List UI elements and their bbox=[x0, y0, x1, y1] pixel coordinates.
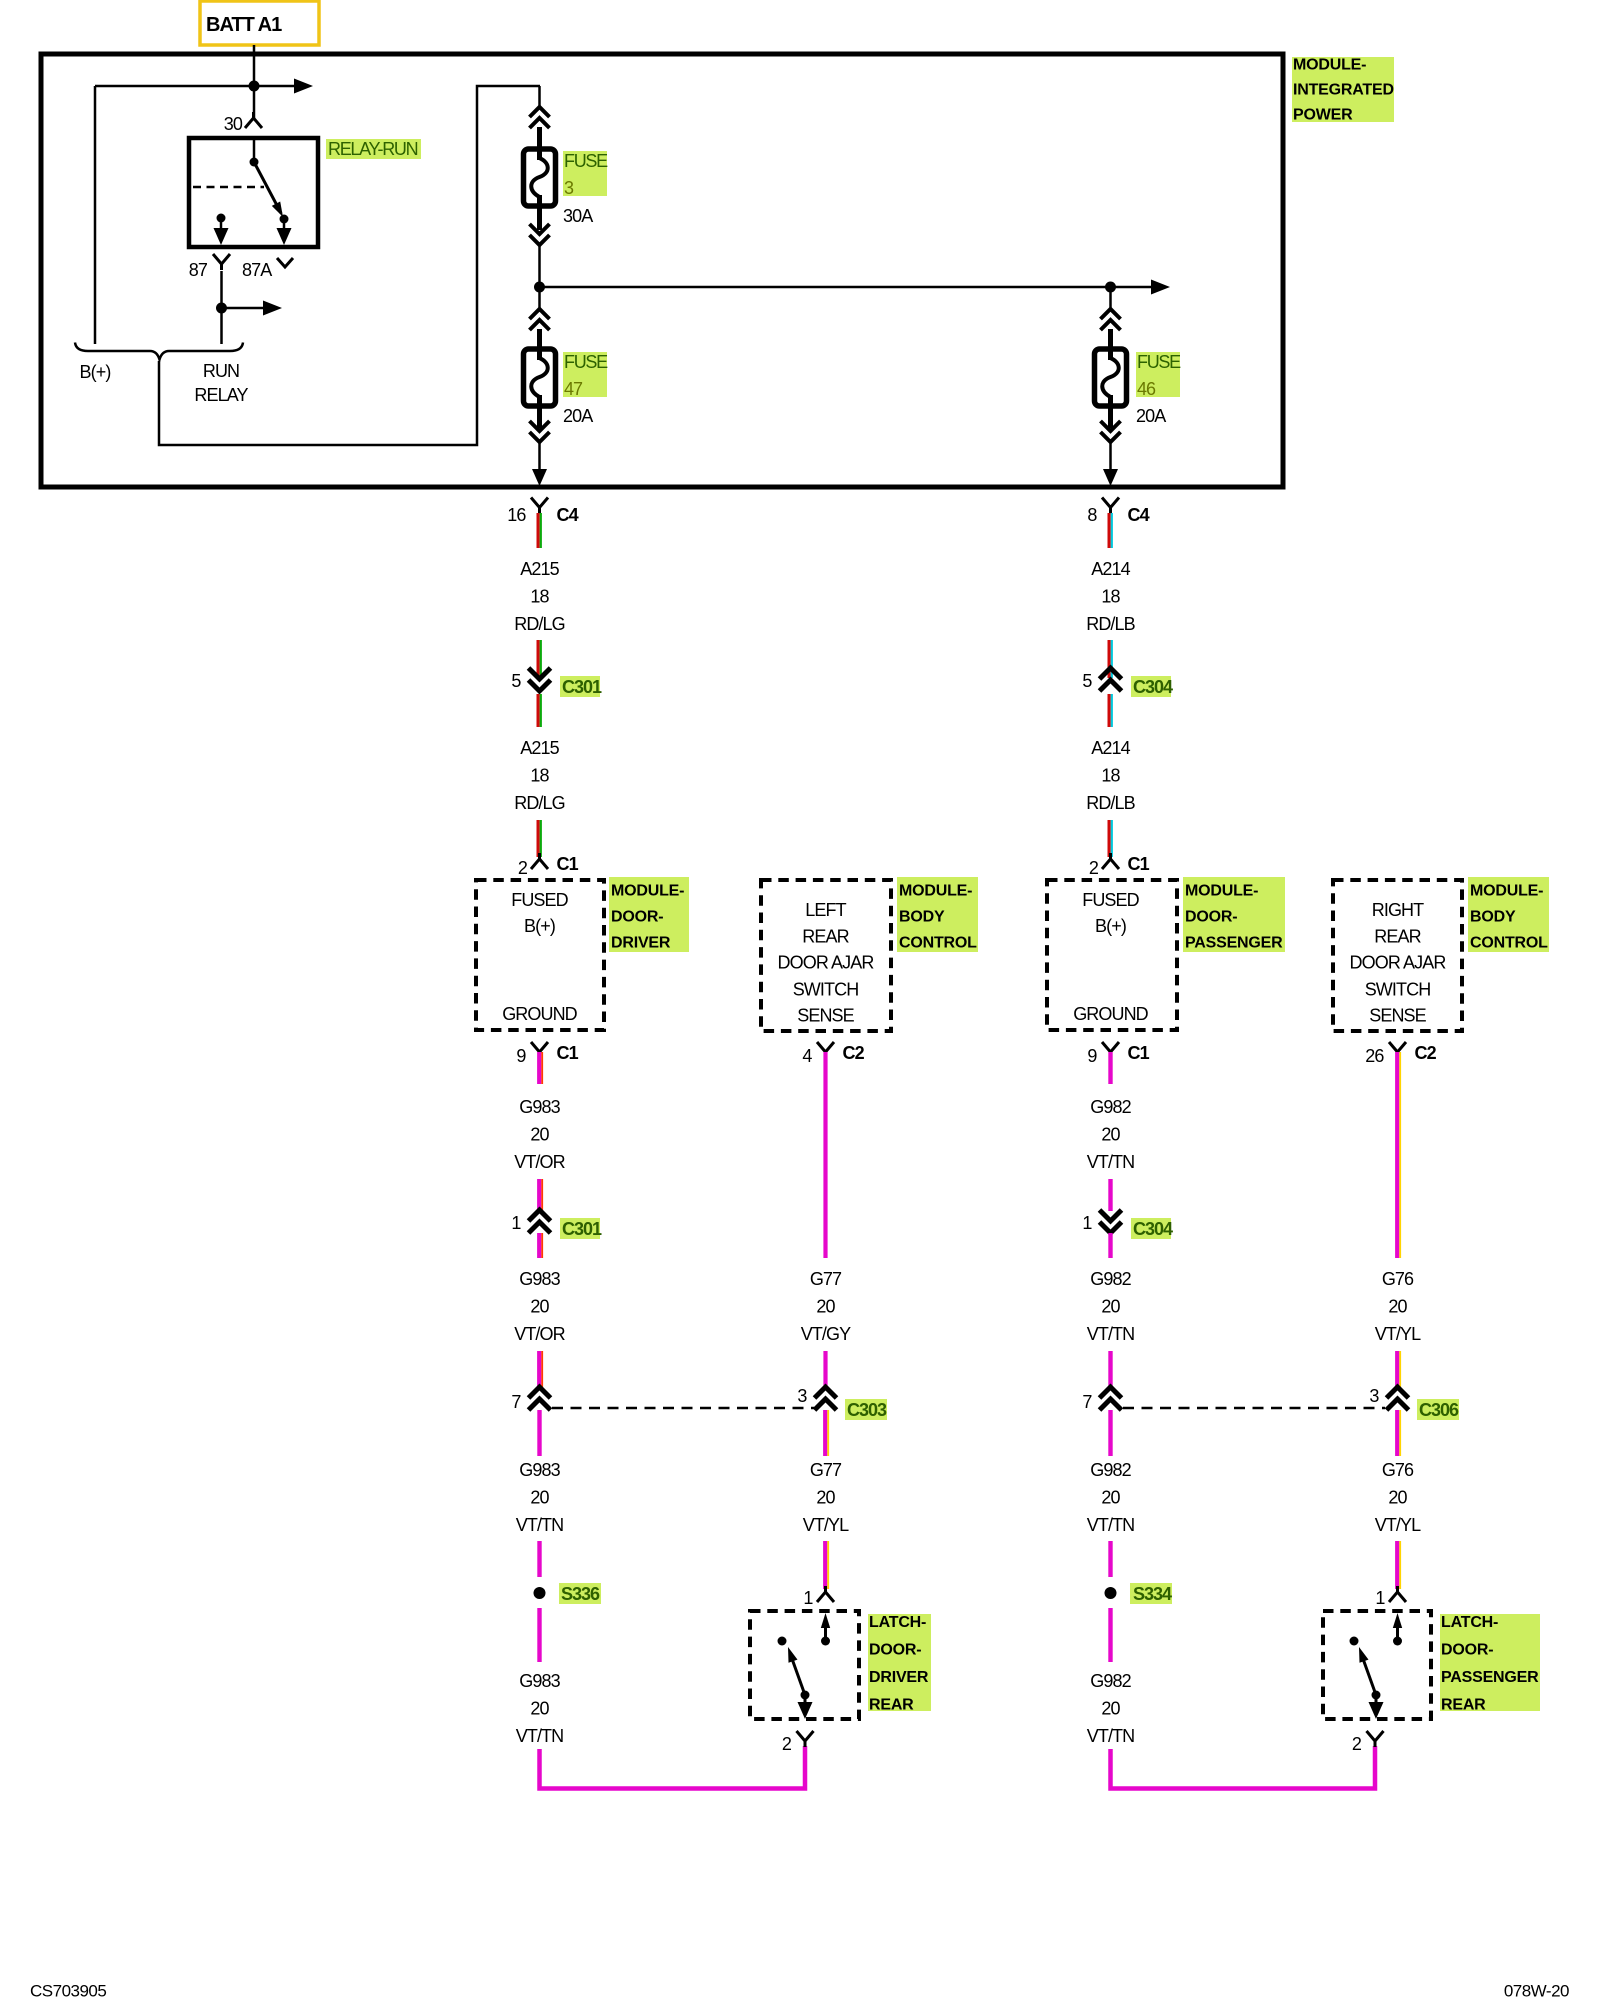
connector C301 chevrons bbox=[529, 668, 551, 691]
wire G982 seg3 bbox=[1108, 1233, 1112, 1258]
arrow fuse47 exit bbox=[532, 469, 547, 486]
svg-text:20A: 20A bbox=[563, 406, 593, 426]
svg-text:26: 26 bbox=[1365, 1046, 1384, 1066]
wire A215 seg1 bbox=[536, 513, 539, 548]
splice S334 bbox=[1105, 1587, 1117, 1599]
latch passenger pin2 wire bbox=[1375, 1695, 1378, 1710]
splice S336 bbox=[534, 1587, 546, 1599]
connector C304 chevrons bbox=[1100, 668, 1122, 691]
wire left branch down to B(+) brace bbox=[94, 86, 97, 344]
svg-text:20: 20 bbox=[816, 1297, 835, 1317]
svg-text:BODY: BODY bbox=[1470, 909, 1516, 926]
pin 16 connector symbol (C4) bbox=[531, 498, 548, 514]
svg-text:REAR: REAR bbox=[802, 927, 849, 947]
svg-text:C4: C4 bbox=[1128, 505, 1150, 525]
svg-text:20: 20 bbox=[1101, 1488, 1120, 1508]
wire fuse46 to module box edge bbox=[1109, 442, 1112, 480]
fuse46 output chevrons bbox=[1101, 421, 1121, 442]
svg-text:RD/LB: RD/LB bbox=[1086, 793, 1135, 813]
wire run relay output routing bbox=[159, 86, 540, 445]
pin 1 connector symbol (driver latch) bbox=[817, 1586, 834, 1602]
svg-text:C1: C1 bbox=[557, 854, 579, 874]
label MODULE-DOOR-PASSENGER highlight bbox=[1183, 877, 1285, 952]
wire G983 seg3 bbox=[537, 1233, 541, 1258]
svg-text:20: 20 bbox=[530, 1297, 549, 1317]
latch driver common dot bbox=[801, 1691, 810, 1700]
wire junction to fuse46 bbox=[1109, 287, 1112, 309]
latch driver contact arrow up bbox=[824, 1622, 827, 1641]
latch-door-passenger-rear box bbox=[1323, 1611, 1431, 1719]
svg-text:DOOR-: DOOR- bbox=[869, 1642, 921, 1659]
latch passenger contact arrow up bbox=[1396, 1622, 1399, 1641]
svg-text:18: 18 bbox=[530, 766, 549, 786]
svg-text:B(+): B(+) bbox=[524, 916, 555, 936]
wire G982 seg7 bbox=[1108, 1608, 1112, 1662]
wire G982 seg1 bbox=[1108, 1052, 1112, 1084]
svg-text:RIGHT: RIGHT bbox=[1372, 900, 1424, 920]
relay contact 87 node dot bbox=[217, 214, 226, 223]
svg-text:20: 20 bbox=[816, 1488, 835, 1508]
brace B(+) RUN RELAY bbox=[75, 343, 243, 360]
svg-text:18: 18 bbox=[530, 587, 549, 607]
svg-text:VT/TN: VT/TN bbox=[1087, 1515, 1135, 1535]
svg-text:CS703905: CS703905 bbox=[30, 1982, 106, 2000]
svg-text:VT/OR: VT/OR bbox=[514, 1152, 565, 1172]
svg-text:2: 2 bbox=[1089, 858, 1099, 878]
wire fuse47 to module box edge bbox=[538, 442, 541, 480]
fuse47 feed connector chevrons bbox=[530, 309, 550, 330]
svg-text:1: 1 bbox=[1082, 1213, 1092, 1233]
wire G983 seg6 bbox=[537, 1541, 541, 1577]
svg-text:3: 3 bbox=[1369, 1386, 1379, 1406]
svg-text:LEFT: LEFT bbox=[805, 900, 846, 920]
svg-text:G77: G77 bbox=[810, 1460, 842, 1480]
fuse47 feed thick wire bbox=[537, 329, 542, 352]
wire relay 87 output down bbox=[220, 271, 223, 344]
fuse F3 bbox=[524, 149, 556, 206]
svg-text:VT/OR: VT/OR bbox=[514, 1324, 565, 1344]
wire G76 seg1 bbox=[1395, 1052, 1399, 1258]
svg-text:LATCH-: LATCH- bbox=[869, 1614, 926, 1631]
arrow fuse bus continuation bbox=[1111, 286, 1157, 289]
label FUSE 3 highlight bbox=[563, 151, 607, 196]
svg-text:FUSE: FUSE bbox=[564, 151, 608, 171]
svg-text:VT/YL: VT/YL bbox=[803, 1515, 849, 1535]
svg-text:2: 2 bbox=[782, 1734, 792, 1754]
latch passenger contact dot right bbox=[1393, 1637, 1402, 1646]
svg-text:A214: A214 bbox=[1091, 738, 1130, 758]
svg-text:C1: C1 bbox=[557, 1043, 579, 1063]
svg-text:A215: A215 bbox=[520, 738, 559, 758]
arrow relay output branch bbox=[222, 307, 269, 310]
wire junction to fuse47 bbox=[538, 287, 541, 309]
svg-text:1: 1 bbox=[803, 1588, 813, 1608]
pin 2 connector symbol (driver latch) bbox=[797, 1731, 814, 1747]
node junction fuse bus right bbox=[1105, 282, 1116, 293]
pin 87A connector symbol bbox=[277, 258, 293, 267]
fuse3 output thick wire bbox=[537, 204, 542, 230]
svg-text:1: 1 bbox=[1375, 1588, 1385, 1608]
relay pin 87 arrow bbox=[214, 228, 229, 245]
svg-text:FUSED: FUSED bbox=[1082, 890, 1139, 910]
svg-text:CONTROL: CONTROL bbox=[1470, 935, 1548, 952]
node junction relay output bbox=[216, 303, 227, 314]
svg-text:18: 18 bbox=[1101, 766, 1120, 786]
svg-text:7: 7 bbox=[1082, 1392, 1092, 1412]
wire G76 seg3 bbox=[1395, 1410, 1399, 1456]
svg-text:9: 9 bbox=[516, 1046, 526, 1066]
wire G982 seg2 bbox=[1108, 1179, 1112, 1211]
label MODULE-BODY-CONTROL (left) highlight bbox=[897, 877, 978, 952]
svg-text:3: 3 bbox=[797, 1386, 807, 1406]
fuse46 feed thick wire bbox=[1108, 329, 1113, 352]
wire A214 seg1 bbox=[1107, 513, 1110, 548]
pin 26 connector symbol (C2) bbox=[1389, 1042, 1406, 1058]
svg-text:G983: G983 bbox=[519, 1671, 560, 1691]
svg-text:20: 20 bbox=[530, 1125, 549, 1145]
wire corner to fuse3 chevrons bbox=[538, 86, 541, 109]
svg-text:46: 46 bbox=[1137, 379, 1156, 399]
svg-text:DRIVER: DRIVER bbox=[869, 1669, 929, 1686]
svg-text:G982: G982 bbox=[1090, 1671, 1131, 1691]
wire G77 seg3 bbox=[823, 1410, 827, 1456]
label FUSE 46 highlight bbox=[1136, 352, 1180, 397]
relay coil feed wire bbox=[253, 138, 256, 162]
connector C304 chevrons bbox=[1100, 1210, 1122, 1233]
svg-text:FUSE: FUSE bbox=[564, 352, 608, 372]
svg-text:LATCH-: LATCH- bbox=[1441, 1614, 1498, 1631]
svg-text:47: 47 bbox=[564, 379, 583, 399]
svg-text:VT/YL: VT/YL bbox=[1375, 1324, 1421, 1344]
wire G76 seg2 bbox=[1395, 1351, 1399, 1388]
svg-text:VT/GY: VT/GY bbox=[801, 1324, 851, 1344]
svg-text:DOOR-: DOOR- bbox=[611, 909, 663, 926]
svg-text:MODULE-: MODULE- bbox=[1470, 883, 1543, 900]
wire A215 seg4 bbox=[536, 820, 539, 857]
wire A215 seg3 bbox=[536, 694, 539, 727]
svg-text:G76: G76 bbox=[1382, 1269, 1414, 1289]
wire G982 seg5 bbox=[1108, 1410, 1112, 1456]
fuse F47 bbox=[524, 349, 556, 406]
node junction fuse bus left bbox=[534, 282, 545, 293]
connector C301 chevrons bbox=[529, 1210, 551, 1233]
latch-door-driver-rear box bbox=[750, 1611, 859, 1719]
relay pin 87 wire bbox=[220, 218, 223, 234]
svg-text:7: 7 bbox=[511, 1392, 521, 1412]
wire G982 to passenger rear latch bbox=[1111, 1746, 1376, 1789]
battery feed BATT A1 box bbox=[200, 1, 319, 45]
wire G983 seg5 bbox=[537, 1410, 541, 1456]
svg-text:BATT A1: BATT A1 bbox=[206, 14, 282, 36]
svg-text:FUSE: FUSE bbox=[1137, 352, 1181, 372]
svg-text:RD/LG: RD/LG bbox=[514, 793, 565, 813]
svg-text:18: 18 bbox=[1101, 587, 1120, 607]
svg-text:VT/TN: VT/TN bbox=[516, 1726, 564, 1746]
wire fuse3 to junction bbox=[538, 245, 541, 287]
wire G982 seg6 bbox=[1108, 1541, 1112, 1577]
svg-text:GROUND: GROUND bbox=[502, 1004, 577, 1024]
pin 2 connector symbol (passenger latch) bbox=[1367, 1731, 1384, 1747]
svg-text:VT/TN: VT/TN bbox=[1087, 1726, 1135, 1746]
svg-text:20: 20 bbox=[1388, 1488, 1407, 1508]
pin 1 connector symbol (passenger latch) bbox=[1389, 1586, 1406, 1602]
connector C303 chevrons (left) bbox=[815, 1387, 837, 1410]
svg-text:VT/TN: VT/TN bbox=[1087, 1324, 1135, 1344]
svg-text:B(+): B(+) bbox=[1095, 916, 1126, 936]
svg-text:G983: G983 bbox=[519, 1460, 560, 1480]
svg-text:A215: A215 bbox=[520, 559, 559, 579]
wire A215 seg2 bbox=[536, 640, 539, 678]
label MODULE-BODY-CONTROL (right) highlight bbox=[1468, 877, 1549, 952]
svg-text:C303: C303 bbox=[847, 1400, 887, 1420]
svg-text:SWITCH: SWITCH bbox=[1365, 980, 1431, 1000]
label S334 highlight bbox=[1130, 1583, 1172, 1604]
pin 9 connector symbol (passenger C1) bbox=[1102, 1042, 1119, 1058]
svg-text:G982: G982 bbox=[1090, 1097, 1131, 1117]
svg-text:20: 20 bbox=[1101, 1125, 1120, 1145]
svg-text:C2: C2 bbox=[1415, 1043, 1437, 1063]
svg-text:REAR: REAR bbox=[869, 1697, 914, 1714]
svg-text:20: 20 bbox=[1101, 1699, 1120, 1719]
svg-text:2: 2 bbox=[518, 858, 528, 878]
fuse3 feed connector chevrons bbox=[530, 107, 550, 128]
svg-text:4: 4 bbox=[802, 1046, 812, 1066]
svg-text:G983: G983 bbox=[519, 1269, 560, 1289]
svg-text:SWITCH: SWITCH bbox=[793, 980, 859, 1000]
fuse3 output chevrons bbox=[530, 224, 550, 245]
wire G983 seg1 bbox=[537, 1052, 541, 1084]
svg-text:20: 20 bbox=[530, 1488, 549, 1508]
wire G983 seg2 bbox=[537, 1179, 541, 1211]
svg-text:078W-20: 078W-20 bbox=[1504, 1982, 1569, 2000]
svg-text:C306: C306 bbox=[1419, 1400, 1459, 1420]
svg-text:20A: 20A bbox=[1136, 406, 1166, 426]
connector C301 label highlight bbox=[560, 676, 600, 697]
module-integrated power box outline bbox=[41, 54, 1283, 487]
wire BATT A1 to module box bbox=[253, 45, 256, 120]
wire A214 seg2 bbox=[1107, 640, 1110, 678]
wire G77 seg1 bbox=[823, 1052, 827, 1258]
relay internal dashed line bbox=[193, 186, 264, 189]
pin 87 connector symbol bbox=[213, 254, 230, 270]
latch driver pin2 arrow bbox=[798, 1702, 813, 1719]
svg-text:G982: G982 bbox=[1090, 1460, 1131, 1480]
svg-text:2: 2 bbox=[1352, 1734, 1362, 1754]
fuse46 feed connector chevrons bbox=[1101, 309, 1121, 330]
svg-text:C301: C301 bbox=[562, 1219, 602, 1239]
connector C304 label highlight bbox=[1131, 1218, 1171, 1239]
svg-text:VT/YL: VT/YL bbox=[1375, 1515, 1421, 1535]
svg-text:C304: C304 bbox=[1133, 1219, 1173, 1239]
svg-text:16: 16 bbox=[507, 505, 526, 525]
wire G982 seg4 bbox=[1108, 1351, 1112, 1388]
svg-text:20: 20 bbox=[530, 1699, 549, 1719]
svg-text:20: 20 bbox=[1388, 1297, 1407, 1317]
wire G77 seg2 bbox=[823, 1351, 827, 1388]
svg-text:G983: G983 bbox=[519, 1097, 560, 1117]
svg-text:DOOR AJAR: DOOR AJAR bbox=[778, 953, 875, 973]
svg-text:RELAY: RELAY bbox=[194, 385, 248, 405]
relay pin 87A arrow bbox=[277, 228, 292, 245]
svg-text:MODULE-: MODULE- bbox=[611, 883, 684, 900]
connector C306 chevrons (right) bbox=[1387, 1387, 1409, 1410]
relay common node dot bbox=[250, 158, 259, 167]
fuse46 output thick wire bbox=[1108, 404, 1113, 428]
label LATCH-DOOR-DRIVER-REAR highlight bbox=[868, 1614, 931, 1711]
module-body-control box (left) bbox=[761, 880, 891, 1031]
fuse F46 bbox=[1095, 349, 1127, 406]
svg-text:G76: G76 bbox=[1382, 1460, 1414, 1480]
svg-text:REAR: REAR bbox=[1441, 1697, 1486, 1714]
svg-text:PASSENGER: PASSENGER bbox=[1185, 935, 1283, 952]
svg-text:S334: S334 bbox=[1133, 1584, 1172, 1604]
svg-text:DOOR-: DOOR- bbox=[1441, 1642, 1493, 1659]
svg-text:RD/LG: RD/LG bbox=[514, 614, 565, 634]
svg-text:C4: C4 bbox=[557, 505, 579, 525]
svg-text:30A: 30A bbox=[563, 206, 593, 226]
svg-text:SENSE: SENSE bbox=[797, 1006, 854, 1026]
svg-text:C2: C2 bbox=[843, 1043, 865, 1063]
relay switch blade bbox=[254, 162, 281, 213]
connector C306 label highlight bbox=[1417, 1399, 1459, 1420]
connector C306 chevrons (passenger) bbox=[1100, 1387, 1122, 1410]
dashed link C306 left bbox=[1123, 1407, 1385, 1410]
svg-text:RELAY-RUN: RELAY-RUN bbox=[328, 139, 418, 159]
latch driver contact dot left bbox=[778, 1637, 787, 1646]
relay RELAY-RUN box bbox=[189, 138, 318, 247]
svg-text:RD/LB: RD/LB bbox=[1086, 614, 1135, 634]
latch passenger contact dot left bbox=[1350, 1637, 1359, 1646]
svg-text:DOOR AJAR: DOOR AJAR bbox=[1350, 953, 1447, 973]
wire G77 seg4 bbox=[823, 1541, 827, 1589]
latch passenger common dot bbox=[1372, 1691, 1381, 1700]
svg-text:MODULE-: MODULE- bbox=[899, 883, 972, 900]
svg-text:1: 1 bbox=[511, 1213, 521, 1233]
svg-text:5: 5 bbox=[1082, 671, 1092, 691]
svg-text:REAR: REAR bbox=[1374, 927, 1421, 947]
svg-text:C304: C304 bbox=[1133, 677, 1173, 697]
svg-text:RUN: RUN bbox=[203, 361, 239, 381]
arrow batt feed continuation bbox=[254, 85, 299, 88]
relay contact 87A node dot bbox=[280, 215, 289, 224]
connector C303 label highlight bbox=[845, 1399, 887, 1420]
svg-text:C301: C301 bbox=[562, 677, 602, 697]
wire G983 seg7 bbox=[537, 1608, 541, 1662]
svg-text:S336: S336 bbox=[561, 1584, 600, 1604]
svg-text:VT/TN: VT/TN bbox=[516, 1515, 564, 1535]
label S336 highlight bbox=[559, 1583, 601, 1604]
svg-text:MODULE-: MODULE- bbox=[1185, 883, 1258, 900]
wire G76 seg4 bbox=[1395, 1541, 1399, 1589]
svg-text:87A: 87A bbox=[242, 260, 272, 280]
svg-text:SENSE: SENSE bbox=[1369, 1006, 1426, 1026]
svg-text:B(+): B(+) bbox=[80, 362, 111, 382]
svg-text:C1: C1 bbox=[1128, 1043, 1150, 1063]
fuse47 output thick wire bbox=[537, 404, 542, 428]
connector C303 chevrons (driver) bbox=[529, 1387, 551, 1410]
svg-text:PASSENGER: PASSENGER bbox=[1441, 1669, 1539, 1686]
latch driver pin2 wire bbox=[804, 1695, 807, 1710]
pin 4 connector symbol (C2) bbox=[817, 1042, 834, 1058]
connector C301 label highlight bbox=[560, 1218, 600, 1239]
fuse47 output chevrons bbox=[530, 421, 550, 442]
svg-text:20: 20 bbox=[1101, 1297, 1120, 1317]
svg-text:POWER: POWER bbox=[1293, 107, 1353, 124]
svg-text:INTEGRATED: INTEGRATED bbox=[1293, 82, 1394, 99]
wire A214 seg3 bbox=[1107, 694, 1110, 727]
svg-text:5: 5 bbox=[511, 671, 521, 691]
module-door-driver box bbox=[476, 880, 604, 1030]
svg-text:87: 87 bbox=[189, 260, 208, 280]
svg-text:MODULE-: MODULE- bbox=[1293, 57, 1366, 74]
module-body-control box (right) bbox=[1333, 880, 1462, 1031]
relay pin 87A wire bbox=[283, 219, 286, 234]
arrow fuse46 exit bbox=[1103, 469, 1118, 486]
wire G983 seg4 bbox=[537, 1351, 541, 1388]
label MODULE-INTEGRATED POWER highlight bbox=[1292, 57, 1394, 122]
dashed link C303 left bbox=[552, 1407, 814, 1410]
latch driver contact dot right bbox=[821, 1637, 830, 1646]
svg-text:G77: G77 bbox=[810, 1269, 842, 1289]
svg-text:A214: A214 bbox=[1091, 559, 1130, 579]
wire junction to left branch bbox=[95, 85, 254, 88]
label FUSE 47 highlight bbox=[563, 352, 607, 397]
svg-text:9: 9 bbox=[1087, 1046, 1097, 1066]
svg-text:VT/TN: VT/TN bbox=[1087, 1152, 1135, 1172]
svg-text:DRIVER: DRIVER bbox=[611, 935, 671, 952]
label MODULE-DOOR-DRIVER highlight bbox=[609, 877, 689, 952]
pin 30 connector symbol bbox=[245, 112, 262, 128]
svg-text:G982: G982 bbox=[1090, 1269, 1131, 1289]
svg-text:FUSED: FUSED bbox=[511, 890, 568, 910]
wire G983 to driver rear latch bbox=[540, 1746, 806, 1789]
svg-text:CONTROL: CONTROL bbox=[899, 935, 977, 952]
wire fuse bus bbox=[540, 286, 1111, 289]
svg-text:C1: C1 bbox=[1128, 854, 1150, 874]
svg-text:30: 30 bbox=[224, 114, 243, 134]
label RELAY-RUN highlight bbox=[326, 139, 421, 159]
pin 9 connector symbol (driver C1) bbox=[531, 1042, 548, 1058]
module-door-passenger box bbox=[1047, 880, 1177, 1030]
svg-text:8: 8 bbox=[1087, 505, 1097, 525]
pin 8 connector symbol (C4) bbox=[1102, 498, 1119, 514]
latch passenger switch blade bbox=[1362, 1656, 1376, 1695]
latch passenger pin2 arrow bbox=[1369, 1702, 1384, 1719]
pin 2 connector symbol (passenger C1) bbox=[1102, 853, 1119, 869]
pin 2 connector symbol (driver C1) bbox=[531, 853, 548, 869]
wire A214 seg4 bbox=[1107, 820, 1110, 857]
svg-text:GROUND: GROUND bbox=[1073, 1004, 1148, 1024]
fuse3 feed thick wire bbox=[537, 127, 542, 152]
svg-text:DOOR-: DOOR- bbox=[1185, 909, 1237, 926]
node junction batt feed bbox=[249, 81, 260, 92]
connector C304 label highlight bbox=[1131, 676, 1171, 697]
label LATCH-DOOR-PASSENGER-REAR highlight bbox=[1440, 1614, 1540, 1711]
svg-text:3: 3 bbox=[564, 178, 574, 198]
latch driver switch blade bbox=[791, 1656, 805, 1695]
svg-text:BODY: BODY bbox=[899, 909, 945, 926]
